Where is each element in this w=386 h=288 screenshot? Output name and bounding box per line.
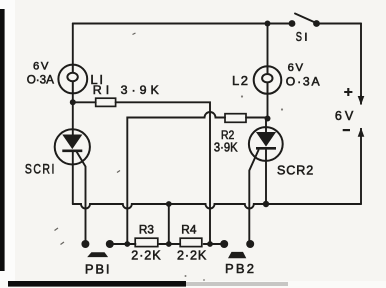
svg-text:L2: L2 (232, 73, 249, 88)
wire R3 right lead (159, 243, 180, 245)
resistor R4 (180, 238, 202, 246)
wire L2 anode drop (267, 24, 269, 67)
bottom page margin (0, 281, 386, 288)
wire R4 right lead to PB2 left contact (204, 243, 225, 245)
node L1 / R1 / SCR1 anode (70, 99, 76, 105)
wire top rail right of S1 (317, 23, 362, 25)
scan border bar bottom (8, 281, 186, 287)
wire L1 anode drop (72, 24, 74, 65)
push button PB2 (220, 240, 254, 258)
node R3 left / PB1 wire (124, 241, 130, 247)
svg-text:6V: 6V (33, 61, 50, 73)
wire SCR2 anode (265, 119, 267, 133)
wire R2 left lead to corner and drop to R3/PB1 node with hop over R1 drop (127, 112, 225, 244)
svg-text:6V: 6V (335, 109, 356, 123)
switch S1 (289, 14, 320, 27)
label + (344, 88, 352, 96)
svg-text:RI 3·9K: RI 3·9K (93, 83, 163, 97)
wire SCR2 cathode to bus (265, 150, 267, 204)
svg-text:S: S (296, 29, 302, 44)
lamp L2 (254, 66, 282, 94)
svg-text:O·3A: O·3A (286, 74, 322, 88)
scan border bar left (0, 9, 5, 271)
wire L2 to anode node (267, 94, 269, 119)
SCR2 (249, 127, 283, 161)
svg-text:6V: 6V (288, 62, 305, 74)
wire PB1 right contact to R3 (110, 243, 136, 245)
node R4 right / R1 drop (207, 241, 213, 247)
battery arrow down (+) (358, 95, 365, 105)
resistor R1 (96, 98, 116, 106)
push button PB1 (81, 240, 113, 257)
wire R3 R4 junction to bus (168, 204, 170, 244)
battery arrow up (-) (358, 128, 365, 137)
node L2 / R2 / SCR2 anode (265, 116, 271, 122)
resistor R2 (225, 114, 246, 123)
wire R1 right lead to corner and drop to R4/PB2 node (116, 102, 210, 244)
node bus / R3R4 drop (166, 201, 172, 207)
scan speckles (55, 33, 136, 245)
svg-text:SCRI: SCRI (25, 162, 56, 178)
svg-text:2·2K: 2·2K (131, 249, 161, 263)
node R3 / R4 junction (166, 241, 172, 247)
svg-text:R4: R4 (181, 223, 197, 237)
wire SCR1 gate diagonal (77, 152, 86, 245)
svg-text:R3: R3 (139, 223, 155, 237)
wire right rail upper with supply arrow down (360, 24, 362, 98)
wire bottom bus with hops (73, 204, 361, 209)
node top rail / L2 junction (265, 21, 271, 27)
wire L1 to SCR1 anode (72, 94, 74, 136)
wire R1 left lead (73, 101, 96, 103)
svg-text:3·9K: 3·9K (214, 140, 238, 155)
label - (343, 129, 350, 131)
left page margin (0, 0, 15, 288)
lamp L1 (58, 65, 87, 94)
svg-text:PB2: PB2 (225, 261, 256, 276)
svg-text:SCR2: SCR2 (277, 163, 314, 177)
wire right rail lower from supply arrow up (360, 135, 362, 204)
resistor R3 (135, 238, 158, 246)
wire R2 right lead (246, 117, 268, 119)
node bus / SCR2 cathode (263, 201, 269, 207)
wire top rail left of S1 (73, 23, 292, 25)
wire SCR1 cathode to bottom bus (72, 152, 74, 205)
svg-text:2·2K: 2·2K (177, 249, 207, 263)
svg-text:O·3A: O·3A (27, 73, 55, 87)
wire SCR2 gate diagonal (249, 150, 258, 244)
svg-text:PBI: PBI (85, 262, 111, 277)
SCR1 (55, 129, 90, 164)
